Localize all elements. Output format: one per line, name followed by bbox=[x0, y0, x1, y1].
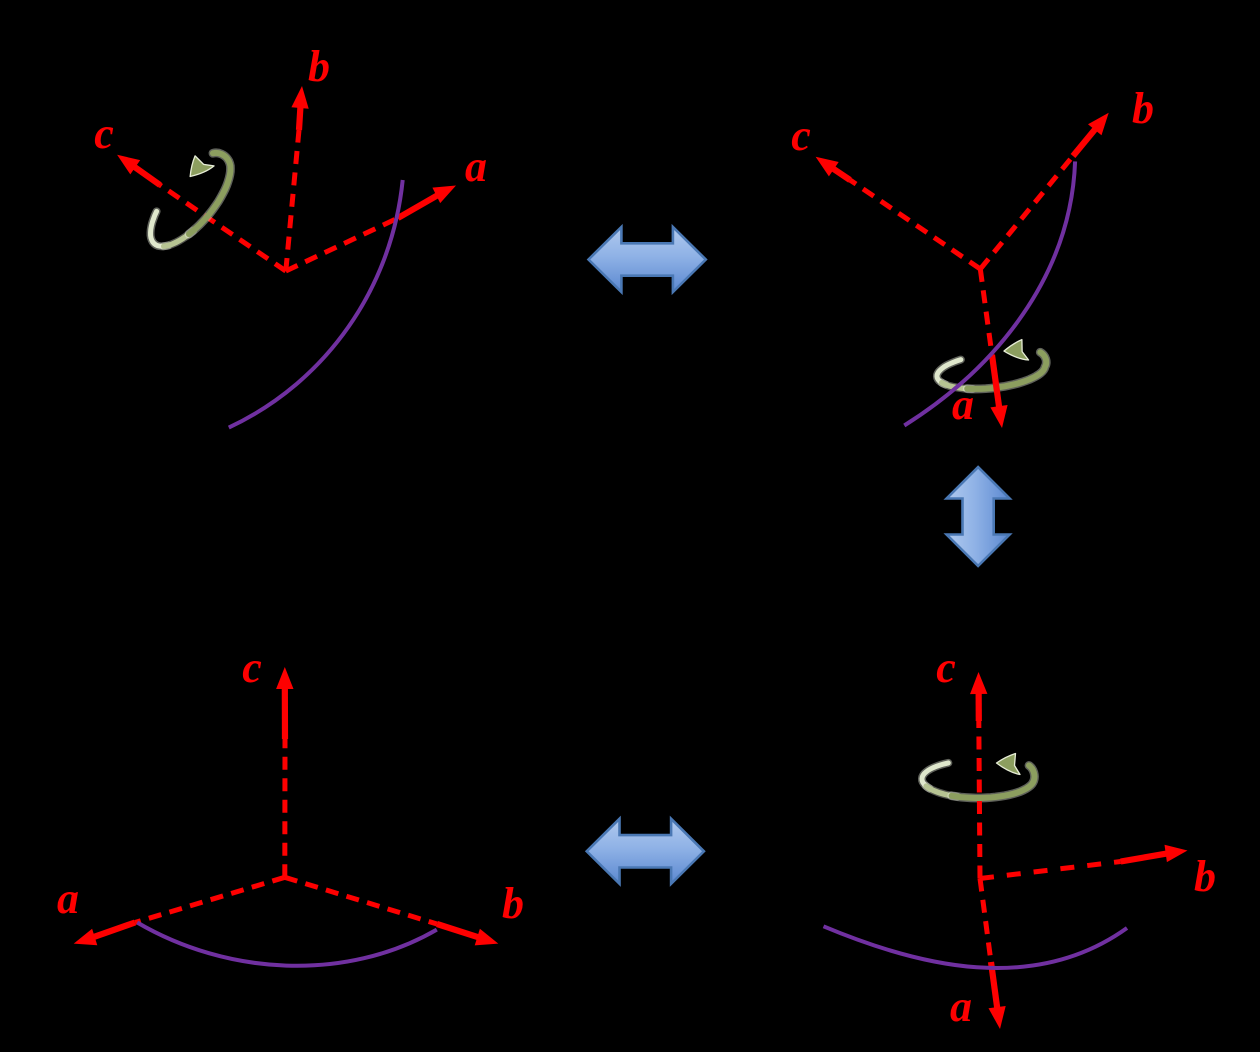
TL axis a arrowhead bbox=[432, 186, 456, 204]
BL axis b arrowhead bbox=[475, 929, 499, 946]
BR axis c dashed line bbox=[979, 721, 980, 879]
svg-text:a: a bbox=[950, 982, 972, 1031]
BR axis b solid segment bbox=[1121, 852, 1175, 861]
BR rotation arrow about c bbox=[922, 754, 1034, 799]
TR axis c arrowhead bbox=[816, 157, 839, 177]
svg-text:b: b bbox=[502, 879, 524, 928]
TL purple curve bbox=[229, 180, 403, 428]
TR axis a solid segment bbox=[992, 355, 1000, 415]
TR axis a dashed line bbox=[980, 269, 992, 355]
TR axis b dashed line bbox=[980, 156, 1073, 269]
svg-text:b: b bbox=[1132, 84, 1154, 133]
TR axis c dashed line bbox=[850, 180, 980, 269]
svg-text:a: a bbox=[57, 874, 79, 923]
TL axis c dashed line bbox=[160, 185, 286, 271]
BR axis a dashed line bbox=[980, 879, 991, 963]
BR purple curve bbox=[824, 926, 1128, 968]
BR axis c arrowhead bbox=[970, 672, 987, 694]
TR axis a arrowhead bbox=[990, 405, 1007, 428]
TL axis b dashed line bbox=[286, 130, 299, 271]
TL axis c arrowhead bbox=[117, 155, 140, 175]
TR rotation arrow about a bbox=[934, 337, 1048, 393]
BL axis c dashed line bbox=[282, 739, 287, 877]
svg-text:a: a bbox=[465, 142, 487, 191]
BL axis a arrowhead bbox=[74, 929, 98, 946]
TL axis a dashed line bbox=[286, 218, 398, 271]
BL axis a dashed line bbox=[135, 877, 285, 922]
BL axis c solid segment bbox=[282, 680, 288, 739]
TL axis c solid segment bbox=[128, 162, 160, 185]
TR axis b solid segment bbox=[1073, 123, 1100, 156]
svg-text:c: c bbox=[242, 643, 262, 692]
svg-text:c: c bbox=[94, 109, 114, 158]
BR axis b dashed line bbox=[980, 862, 1121, 879]
svg-text:b: b bbox=[1194, 852, 1216, 901]
BR axis a solid segment bbox=[991, 962, 998, 1016]
blue double arrow bottom bbox=[587, 819, 704, 884]
svg-text:a: a bbox=[952, 380, 974, 429]
TR axis c solid segment bbox=[826, 164, 850, 180]
BL axis b dashed line bbox=[285, 877, 437, 924]
blue double arrow top bbox=[589, 227, 706, 292]
svg-text:c: c bbox=[791, 111, 811, 160]
TL rotation arrow about c bbox=[135, 141, 244, 258]
BR axis b arrowhead bbox=[1165, 845, 1188, 862]
BR axis c solid segment bbox=[975, 685, 981, 721]
TR axis b arrowhead bbox=[1088, 113, 1109, 136]
TL axis a solid segment bbox=[398, 191, 444, 218]
BL purple curve bbox=[137, 923, 437, 966]
TR purple curve bbox=[904, 161, 1075, 425]
BL axis b solid segment bbox=[437, 924, 486, 940]
BL axis a solid segment bbox=[86, 923, 135, 940]
blue double arrow right bbox=[947, 467, 1010, 566]
svg-text:b: b bbox=[308, 42, 330, 91]
BR axis a arrowhead bbox=[989, 1006, 1006, 1029]
BL axis c arrowhead bbox=[276, 667, 293, 689]
TL axis b arrowhead bbox=[291, 86, 308, 109]
svg-text:c: c bbox=[936, 643, 956, 692]
TL axis b solid segment bbox=[299, 99, 301, 130]
